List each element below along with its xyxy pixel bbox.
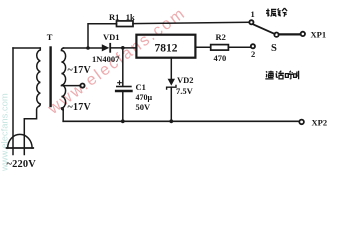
plug ~220V dome: [8, 134, 32, 148]
wire: secondary top to VD1/R1 node: [64, 47, 102, 49]
node A: junction secondary/R1 branch: [86, 46, 90, 50]
svg-text:~220V: ~220V: [7, 159, 37, 170]
wire: pivot to XP1: [279, 33, 301, 35]
diode VD1: [102, 44, 110, 52]
wire: 7812 ground pin down: [170, 58, 172, 79]
svg-text:~17V: ~17V: [68, 65, 92, 76]
svg-text:470μ: 470μ: [136, 93, 153, 102]
switch S contact 1: [249, 20, 253, 24]
svg-text:7812: 7812: [155, 42, 178, 54]
svg-text:C1: C1: [136, 82, 146, 92]
wire: 7812 output to R2: [195, 46, 210, 48]
wire: secondary center tap: [61, 85, 80, 87]
transformer core: [49, 48, 51, 107]
svg-text:R1: R1: [109, 12, 119, 22]
wire: R1 to switch contact 1: [133, 22, 249, 23]
switch S pivot: [274, 33, 278, 37]
plug flat bar: [7, 147, 34, 149]
wire: primary left vertical (mains to plug prong): [12, 48, 14, 155]
switch S contact 2: [251, 44, 255, 48]
svg-text:7.5V: 7.5V: [176, 86, 194, 96]
switch S lever: [253, 24, 274, 34]
svg-text:XP2: XP2: [312, 118, 328, 128]
wire: ground rail: [63, 120, 299, 122]
resistor R1 body: [117, 21, 134, 27]
wire: R2 to switch contact 2: [228, 46, 250, 48]
node: C1 to ground rail: [121, 119, 125, 123]
wire: VD1 cathode to 7812 input: [111, 47, 136, 49]
svg-text:1N4007: 1N4007: [92, 54, 120, 64]
op-amp: regulator U1 7812 box: [136, 35, 195, 58]
transformer T primary winding: [37, 48, 41, 106]
svg-text:XP1: XP1: [311, 30, 327, 40]
svg-text:R2: R2: [216, 32, 226, 42]
capacitor C1: [116, 48, 131, 121]
terminal XP2: [299, 120, 304, 125]
svg-text:~17V: ~17V: [68, 102, 92, 113]
svg-text:1k: 1k: [126, 12, 135, 22]
node: VD2 to ground rail: [169, 119, 173, 123]
svg-text:1: 1: [251, 9, 255, 19]
terminal: center tap open circle: [80, 84, 84, 88]
zener diode VD2: [167, 79, 176, 122]
wire: R1 branch up: [88, 24, 117, 48]
label 通话呼叫 (talk/call): [265, 71, 298, 80]
wire: primary top horizontal: [13, 47, 40, 49]
terminal XP1: [301, 32, 305, 36]
svg-text:2: 2: [251, 49, 255, 59]
svg-text:T: T: [47, 32, 53, 42]
svg-text:470: 470: [214, 53, 227, 63]
transformer T secondary winding: [61, 48, 65, 110]
svg-text:S: S: [271, 43, 277, 54]
wire: secondary bottom down to ground rail: [62, 109, 64, 122]
node B: junction C1 branch: [121, 46, 125, 50]
resistor R2 body: [211, 45, 229, 51]
svg-text:VD1: VD1: [103, 32, 120, 42]
svg-text:50V: 50V: [136, 102, 152, 112]
wire: primary bottom exit to plug: [24, 106, 39, 154]
svg-text:VD2: VD2: [177, 75, 194, 85]
label 振铃 (ringing): [266, 8, 287, 17]
